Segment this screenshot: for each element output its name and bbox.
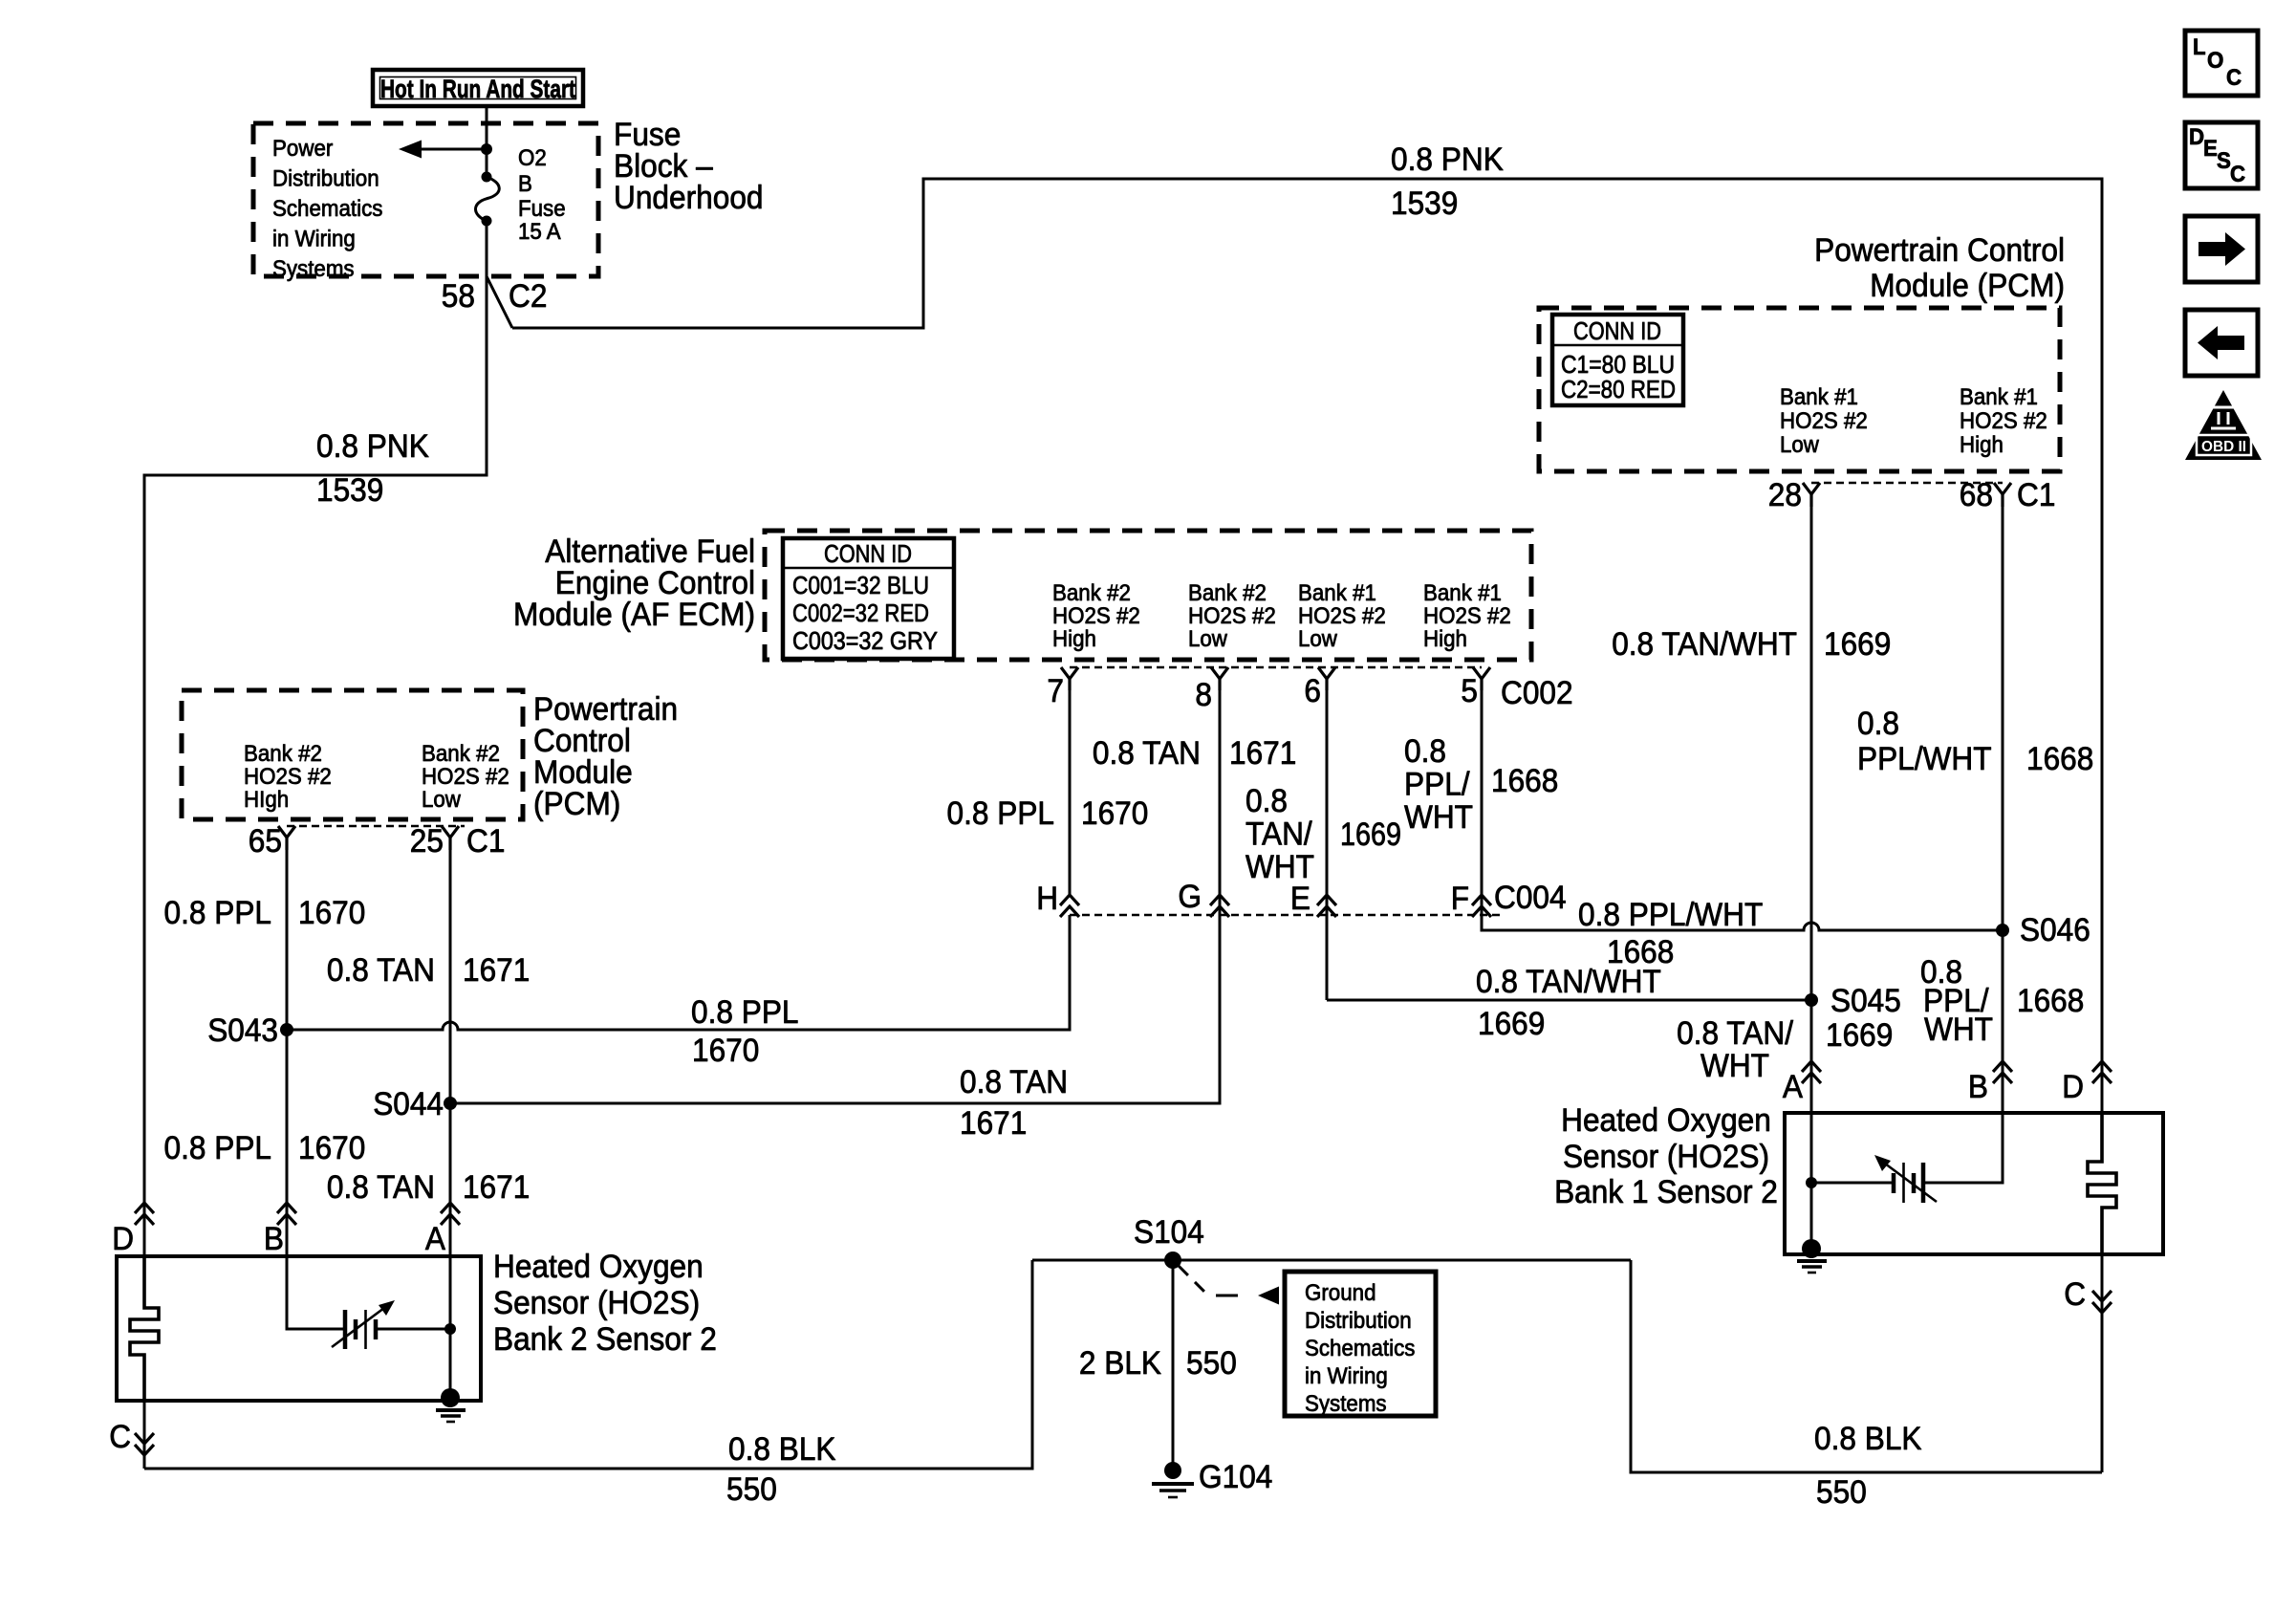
svg-text:HO2S #2: HO2S #2 xyxy=(244,764,332,790)
svg-text:L: L xyxy=(2193,34,2206,60)
svg-text:15 A: 15 A xyxy=(518,219,561,245)
svg-text:Bank #1: Bank #1 xyxy=(1960,384,2038,410)
svg-text:S046: S046 xyxy=(2020,912,2090,948)
ground symbol left HO2S xyxy=(436,1410,466,1422)
pin 6 connector Y xyxy=(1318,667,1335,690)
svg-text:Module (AF ECM): Module (AF ECM) xyxy=(513,597,755,633)
svg-text:S104: S104 xyxy=(1134,1214,1204,1251)
svg-text:WHT: WHT xyxy=(1404,799,1473,836)
svg-text:Low: Low xyxy=(1780,432,1820,458)
label Bank #1 HO2S #2 High (pin 5) xyxy=(1423,580,1511,652)
svg-text:HO2S #2: HO2S #2 xyxy=(1298,603,1386,629)
svg-text:1669: 1669 xyxy=(1478,1006,1545,1042)
svg-text:Low: Low xyxy=(1298,626,1338,652)
svg-text:1671: 1671 xyxy=(1229,735,1296,772)
wire splice run to S104 and right xyxy=(1032,1259,1631,1262)
svg-text:0.8 TAN: 0.8 TAN xyxy=(1093,735,1201,772)
node S043 xyxy=(280,1023,293,1036)
svg-text:WHT: WHT xyxy=(1924,1012,1993,1048)
svg-text:S: S xyxy=(2217,148,2231,174)
svg-text:D: D xyxy=(2189,124,2204,150)
svg-text:G: G xyxy=(1178,879,1202,915)
label Fuse Block - Underhood xyxy=(614,117,764,216)
svg-text:(PCM): (PCM) xyxy=(533,786,620,822)
connector D chevrons left HO2S xyxy=(135,1203,154,1225)
wire S043 to connector H with hop over wire 25 xyxy=(287,915,1070,1030)
label Bank #2 HO2S #2 HIgh (pin 65) xyxy=(244,741,332,813)
right HO2S box xyxy=(1785,1113,2163,1254)
svg-text:0.8 PPL: 0.8 PPL xyxy=(164,1130,272,1166)
pin 28 connector Y xyxy=(1803,483,1820,507)
wire pin A inside left box xyxy=(449,1256,452,1399)
svg-text:E: E xyxy=(1290,881,1310,917)
svg-text:0.8 PPL: 0.8 PPL xyxy=(947,795,1055,832)
heater element right HO2S xyxy=(2088,1113,2116,1254)
connector H chevrons xyxy=(1060,895,1079,917)
svg-text:Systems: Systems xyxy=(272,256,355,282)
pin 7 connector Y xyxy=(1061,667,1078,690)
battery cell symbol left HO2S xyxy=(332,1300,395,1349)
svg-text:O2: O2 xyxy=(518,145,547,171)
svg-text:Bank #1: Bank #1 xyxy=(1298,580,1376,606)
svg-text:C: C xyxy=(2064,1276,2086,1313)
svg-text:OBD II: OBD II xyxy=(2201,439,2246,455)
ground node right HO2S xyxy=(1802,1239,1821,1258)
svg-text:1669: 1669 xyxy=(1340,816,1401,853)
connector C chevrons left xyxy=(135,1433,154,1455)
svg-text:in Wiring: in Wiring xyxy=(1305,1363,1388,1389)
svg-text:C004: C004 xyxy=(1494,880,1567,916)
svg-text:C: C xyxy=(2230,162,2245,187)
connector C2 slash xyxy=(487,276,512,328)
svg-text:HO2S #2: HO2S #2 xyxy=(1780,408,1868,434)
connector B chevrons right HO2S xyxy=(1993,1061,2012,1083)
PCM right dashed box xyxy=(1539,308,2060,471)
label Bank #2 HO2S #2 High (pin 7) xyxy=(1052,580,1140,652)
node at fuse top xyxy=(481,143,492,155)
svg-text:1671: 1671 xyxy=(463,1169,530,1206)
node S104 xyxy=(1164,1252,1181,1269)
svg-text:HO2S #2: HO2S #2 xyxy=(1188,603,1276,629)
svg-text:Sensor (HO2S): Sensor (HO2S) xyxy=(1563,1139,1769,1175)
node battery junction on wire A xyxy=(444,1323,456,1335)
PCM right connector face line xyxy=(1811,482,2003,485)
svg-text:WHT: WHT xyxy=(1700,1048,1769,1084)
svg-text:C1: C1 xyxy=(466,823,505,860)
pin 65 connector Y xyxy=(278,826,295,850)
svg-text:C2: C2 xyxy=(509,278,547,315)
svg-text:C003=32 GRY: C003=32 GRY xyxy=(792,626,938,655)
PCM left connector face line xyxy=(287,825,465,828)
svg-text:High: High xyxy=(1423,626,1467,652)
fuse block dashed box xyxy=(253,123,598,276)
svg-text:CONN ID: CONN ID xyxy=(824,539,912,568)
svg-text:68: 68 xyxy=(1960,477,1993,513)
svg-text:1668: 1668 xyxy=(2026,741,2093,777)
wire PCM pin 28 to S045 xyxy=(1810,494,1813,1000)
svg-text:S043: S043 xyxy=(207,1012,278,1049)
label 0.8 PPL/ WHT wire B right xyxy=(1920,954,1993,1048)
label Bank #2 HO2S #2 Low (pin 8) xyxy=(1188,580,1276,652)
svg-text:High: High xyxy=(1052,626,1096,652)
svg-text:1539: 1539 xyxy=(1391,185,1458,222)
AF ECM connector face line xyxy=(1070,666,1482,669)
CONN ID table right PCM xyxy=(1552,315,1683,405)
svg-text:C: C xyxy=(2226,65,2242,91)
svg-text:C002=32 RED: C002=32 RED xyxy=(792,599,929,627)
wire right HO2S pin C down xyxy=(2101,1254,2104,1472)
connector A chevrons left HO2S xyxy=(441,1203,460,1225)
heater element left HO2S xyxy=(130,1256,159,1401)
label Bank #2 HO2S #2 Low (pin 25) xyxy=(422,741,509,813)
wire F to S046 with hop over wire 28 xyxy=(1482,915,2003,930)
svg-text:Bank 1 Sensor 2: Bank 1 Sensor 2 xyxy=(1554,1174,1778,1210)
svg-text:Fuse: Fuse xyxy=(518,196,566,222)
svg-text:C: C xyxy=(109,1419,131,1455)
svg-text:Underhood: Underhood xyxy=(614,180,764,216)
svg-text:1670: 1670 xyxy=(298,895,365,931)
pin 25 connector Y xyxy=(442,826,459,850)
ground symbol right HO2S xyxy=(1797,1261,1827,1273)
label Powertrain Control Module (PCM) left xyxy=(533,691,678,822)
svg-text:H: H xyxy=(1036,881,1058,917)
left HO2S box xyxy=(117,1256,481,1401)
wire 25 lower to left HO2S pin A xyxy=(449,1103,452,1254)
svg-text:0.8 PNK: 0.8 PNK xyxy=(1391,142,1504,178)
svg-text:S045: S045 xyxy=(1830,983,1901,1019)
svg-text:0.8: 0.8 xyxy=(1245,783,1288,819)
svg-text:B: B xyxy=(1968,1069,1988,1105)
svg-text:S044: S044 xyxy=(373,1086,444,1122)
node S045 xyxy=(1805,993,1818,1007)
fuse O2 B Fuse 15 A xyxy=(476,145,566,245)
svg-text:C002: C002 xyxy=(1501,675,1573,711)
svg-text:F: F xyxy=(1451,881,1469,917)
ground node left HO2S xyxy=(441,1388,460,1407)
svg-text:C1: C1 xyxy=(2017,477,2055,513)
svg-text:1668: 1668 xyxy=(1491,763,1558,799)
svg-text:1670: 1670 xyxy=(298,1130,365,1166)
label Heated Oxygen Sensor (HO2S) Bank 1 Sensor 2 xyxy=(1554,1102,1778,1210)
label Bank #1 HO2S #2 Low xyxy=(1780,384,1868,458)
svg-text:7: 7 xyxy=(1047,673,1064,709)
wire fuse output xyxy=(486,221,488,276)
svg-text:CONN ID: CONN ID xyxy=(1573,316,1661,345)
svg-text:A: A xyxy=(425,1221,445,1257)
svg-text:Distribution: Distribution xyxy=(1305,1308,1412,1334)
label 0.8 PPL/WHT wire 68 xyxy=(1857,706,1992,777)
connector G chevrons xyxy=(1210,895,1229,917)
svg-text:HO2S #2: HO2S #2 xyxy=(422,764,509,790)
pin 68 connector Y xyxy=(1994,483,2011,507)
label 0.8 PPL/WHT wire 5 xyxy=(1404,733,1473,836)
wire S104 to G104 xyxy=(1172,1260,1175,1470)
reference arrow to ground distribution xyxy=(1179,1266,1279,1305)
svg-text:1670: 1670 xyxy=(1081,795,1148,832)
wire 0.8 BLK 550 right run xyxy=(1631,1260,2102,1472)
label Alternative Fuel Engine Control Module (AF ECM) xyxy=(513,533,755,633)
svg-text:550: 550 xyxy=(726,1471,777,1508)
svg-text:Ground: Ground xyxy=(1305,1280,1376,1306)
svg-text:5: 5 xyxy=(1461,673,1478,709)
svg-text:O: O xyxy=(2207,48,2223,74)
wire AF pin 6 to connector E xyxy=(1326,679,1329,1000)
svg-text:0.8 TAN: 0.8 TAN xyxy=(327,952,435,989)
svg-text:0.8: 0.8 xyxy=(1857,706,1899,742)
node battery junction right xyxy=(1806,1177,1817,1188)
label 0.8 TAN/ WHT wire A right xyxy=(1677,1015,1793,1084)
svg-text:Module (PCM): Module (PCM) xyxy=(1870,268,2065,304)
svg-text:Powertrain Control: Powertrain Control xyxy=(1814,232,2065,269)
wire S045 to right HO2S pin A xyxy=(1810,1000,1813,1111)
connector C chevrons right xyxy=(2092,1291,2112,1313)
wire PCM pin 68 to S046 xyxy=(2002,494,2004,930)
icon OBD II triangle xyxy=(2185,390,2262,460)
svg-text:HIgh: HIgh xyxy=(244,787,289,813)
svg-text:1669: 1669 xyxy=(1824,626,1891,663)
svg-text:550: 550 xyxy=(1186,1345,1237,1382)
svg-text:0.8 PPL/WHT: 0.8 PPL/WHT xyxy=(1578,897,1763,933)
wire 0.8 BLK 550 left run xyxy=(144,1260,1032,1469)
wire AF pin 8 to connector G xyxy=(1219,679,1222,1103)
label Powertrain Control Module (PCM) right xyxy=(1814,232,2065,304)
svg-text:Low: Low xyxy=(422,787,462,813)
svg-text:Heated Oxygen: Heated Oxygen xyxy=(1561,1102,1771,1139)
svg-text:Bank #1: Bank #1 xyxy=(1780,384,1858,410)
svg-text:8: 8 xyxy=(1195,677,1212,713)
wire 65 lower to left HO2S pin B xyxy=(286,1030,289,1254)
svg-text:Systems: Systems xyxy=(1305,1391,1387,1417)
connector B chevrons left HO2S xyxy=(277,1203,296,1225)
svg-text:0.8 TAN/WHT: 0.8 TAN/WHT xyxy=(1476,964,1661,1000)
svg-text:1670: 1670 xyxy=(692,1033,759,1069)
connector E chevrons xyxy=(1317,895,1336,917)
wire S046 to right HO2S pin B xyxy=(2002,930,2004,1111)
svg-text:0.8 TAN/: 0.8 TAN/ xyxy=(1677,1015,1793,1052)
svg-text:0.8 PPL: 0.8 PPL xyxy=(691,994,799,1031)
connector F chevrons xyxy=(1472,895,1491,917)
svg-text:2 BLK: 2 BLK xyxy=(1079,1345,1161,1382)
svg-text:Bank #1: Bank #1 xyxy=(1423,580,1502,606)
AF ECM dashed box xyxy=(765,531,1531,660)
connector A chevrons right HO2S xyxy=(1802,1061,1821,1083)
connector C004 face line xyxy=(1070,914,1503,917)
svg-text:Low: Low xyxy=(1188,626,1228,652)
wire junction to battery right xyxy=(1811,1182,1893,1185)
svg-text:PPL/WHT: PPL/WHT xyxy=(1857,741,1992,777)
wire left HO2S pin C down xyxy=(143,1401,146,1469)
svg-text:Power: Power xyxy=(272,136,333,162)
svg-text:0.8 TAN: 0.8 TAN xyxy=(327,1169,435,1206)
wire AF pin 5 to connector F xyxy=(1481,679,1484,930)
ground distribution box xyxy=(1285,1272,1436,1416)
PCM left dashed box xyxy=(182,690,523,819)
wire PCM pin 65 to S043 xyxy=(286,838,289,1030)
svg-text:Schematics: Schematics xyxy=(272,196,382,222)
wire battery to pin A junction xyxy=(376,1328,450,1331)
wire S044 to connector G xyxy=(450,915,1220,1103)
label Heated Oxygen Sensor (HO2S) Bank 2 Sensor 2 xyxy=(493,1249,717,1358)
wire from Hot box into fuse block xyxy=(486,106,488,177)
svg-text:Heated Oxygen: Heated Oxygen xyxy=(493,1249,704,1285)
icon arrow right xyxy=(2185,216,2258,282)
svg-text:0.8 BLK: 0.8 BLK xyxy=(728,1431,836,1468)
svg-text:1671: 1671 xyxy=(463,952,530,989)
svg-text:Distribution: Distribution xyxy=(272,166,379,192)
svg-text:High: High xyxy=(1960,432,2004,458)
label Bank #1 HO2S #2 High xyxy=(1960,384,2047,458)
svg-text:A: A xyxy=(1783,1069,1803,1105)
svg-text:25: 25 xyxy=(410,823,444,860)
connector D chevrons right HO2S xyxy=(2092,1061,2112,1083)
svg-text:HO2S #2: HO2S #2 xyxy=(1423,603,1511,629)
svg-text:Hot In Run And Start: Hot In Run And Start xyxy=(380,75,575,103)
svg-text:C001=32 BLU: C001=32 BLU xyxy=(792,571,929,599)
svg-text:0.8 TAN/WHT: 0.8 TAN/WHT xyxy=(1612,626,1797,663)
svg-text:E: E xyxy=(2203,136,2218,162)
svg-text:Bank #2: Bank #2 xyxy=(422,741,500,767)
svg-text:PPL/: PPL/ xyxy=(1404,767,1470,803)
svg-text:HO2S #2: HO2S #2 xyxy=(1052,603,1140,629)
svg-text:0.8 BLK: 0.8 BLK xyxy=(1814,1421,1922,1457)
svg-text:0.8 TAN: 0.8 TAN xyxy=(960,1064,1068,1100)
svg-text:1669: 1669 xyxy=(1826,1017,1893,1054)
svg-text:Bank 2 Sensor 2: Bank 2 Sensor 2 xyxy=(493,1321,717,1358)
icon DESC xyxy=(2185,122,2258,188)
wire 0.8 PNK 1539 to right HO2S xyxy=(512,179,2102,1113)
svg-text:in Wiring: in Wiring xyxy=(272,227,356,252)
svg-text:0.8: 0.8 xyxy=(1404,733,1446,770)
svg-text:28: 28 xyxy=(1768,477,1802,513)
wire PCM pin 25 to S044 xyxy=(449,838,452,1103)
svg-text:1668: 1668 xyxy=(2017,983,2084,1019)
icon LOC xyxy=(2185,31,2258,96)
wire pin A inside right box xyxy=(1810,1113,1813,1249)
svg-text:B: B xyxy=(264,1221,284,1257)
svg-text:65: 65 xyxy=(249,823,282,860)
svg-text:C2=80 RED: C2=80 RED xyxy=(1561,375,1676,403)
svg-text:Bank #2: Bank #2 xyxy=(1052,580,1131,606)
svg-text:Bank #2: Bank #2 xyxy=(244,741,322,767)
svg-text:58: 58 xyxy=(442,278,475,315)
battery cell symbol right HO2S xyxy=(1874,1155,1937,1203)
svg-text:0.8 PPL: 0.8 PPL xyxy=(164,895,272,931)
svg-text:B: B xyxy=(518,171,532,197)
label Bank #1 HO2S #2 Low (pin 6) xyxy=(1298,580,1386,652)
svg-text:D: D xyxy=(112,1221,134,1257)
svg-text:Sensor (HO2S): Sensor (HO2S) xyxy=(493,1285,700,1321)
label Ground Distribution Schematics in Wiring Systems xyxy=(1305,1280,1415,1417)
wire pin B inside left box xyxy=(287,1256,343,1329)
wire 0.8 PNK 1539 to left HO2S pin D xyxy=(144,276,487,1254)
svg-text:550: 550 xyxy=(1816,1474,1867,1511)
svg-text:G104: G104 xyxy=(1199,1459,1272,1495)
pin 8 connector Y xyxy=(1211,667,1228,690)
label box "Hot In Run And Start" xyxy=(373,70,583,106)
svg-text:TAN/: TAN/ xyxy=(1245,816,1312,853)
icon arrow left xyxy=(2185,310,2258,376)
arrow to power distribution xyxy=(399,141,487,159)
svg-text:HO2S #2: HO2S #2 xyxy=(1960,408,2047,434)
label 0.8 TAN/WHT wire 6 xyxy=(1245,783,1314,885)
wire E to S045 xyxy=(1327,999,1811,1002)
svg-text:Bank #2: Bank #2 xyxy=(1188,580,1267,606)
svg-text:Schematics: Schematics xyxy=(1305,1336,1415,1361)
pin 5 connector Y xyxy=(1473,667,1490,690)
ground G104 node xyxy=(1164,1462,1181,1479)
svg-text:0.8 PNK: 0.8 PNK xyxy=(316,428,429,465)
node S046 xyxy=(1996,924,2009,937)
ground symbol G104 xyxy=(1152,1484,1194,1497)
svg-text:1671: 1671 xyxy=(960,1105,1027,1142)
CONN ID table AF ECM xyxy=(783,538,954,659)
wire AF pin 7 to connector H xyxy=(1069,679,1072,895)
label Power Distribution Schematics in Wiring Systems xyxy=(272,136,382,282)
wire battery to pin B inside right box xyxy=(1923,1113,2003,1183)
svg-text:1539: 1539 xyxy=(316,472,383,509)
node S044 xyxy=(444,1097,457,1110)
svg-text:D: D xyxy=(2062,1069,2084,1105)
svg-text:6: 6 xyxy=(1304,673,1321,709)
